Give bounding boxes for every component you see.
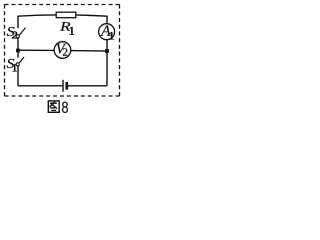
battery cell: short thick plate [66, 82, 69, 90]
ammeter subscript 1 [109, 32, 114, 39]
switch S1 lever [19, 57, 24, 63]
label S2 letter S [7, 27, 15, 36]
label S1 letter S [7, 59, 15, 68]
switch S1 contact circle [16, 63, 19, 66]
wire top horizontal left [17, 15, 56, 16]
wire left vertical lower [17, 66, 19, 86]
wire right vertical upper [106, 16, 108, 24]
label R1 subscript 1 [70, 27, 74, 35]
wire right vertical lower [106, 40, 108, 86]
wire middle horizontal left [18, 49, 55, 51]
ammeter letter A [100, 25, 110, 35]
voltmeter letter V [57, 44, 66, 54]
node junction right [105, 49, 109, 53]
switch S2 lever [19, 28, 25, 36]
wire left vertical between junction and S2 [17, 38, 19, 49]
caption: hand-drawn CJK glyph tu (figure) [48, 101, 59, 112]
wire middle horizontal right [71, 50, 107, 53]
wire top horizontal right [76, 15, 108, 16]
label S1 subscript 1 [13, 64, 17, 71]
voltmeter subscript 2 [63, 48, 67, 55]
battery cell: long thin plate [62, 80, 64, 92]
caption digit 8 [62, 102, 68, 113]
dashed boundary box [5, 5, 120, 97]
switch S2 contact circle [16, 35, 19, 38]
label R1 letter R [60, 22, 70, 31]
wire top-left vertical [17, 16, 19, 28]
wire bottom horizontal left [18, 85, 62, 87]
ammeter A1 [99, 24, 115, 40]
resistor R1 [56, 12, 76, 18]
wire bottom horizontal right [68, 85, 107, 87]
node junction left [16, 49, 20, 53]
voltmeter V2 [54, 42, 71, 59]
label S2 subscript 2 [12, 31, 17, 38]
wire left vertical between S1 and junction [17, 52, 19, 58]
